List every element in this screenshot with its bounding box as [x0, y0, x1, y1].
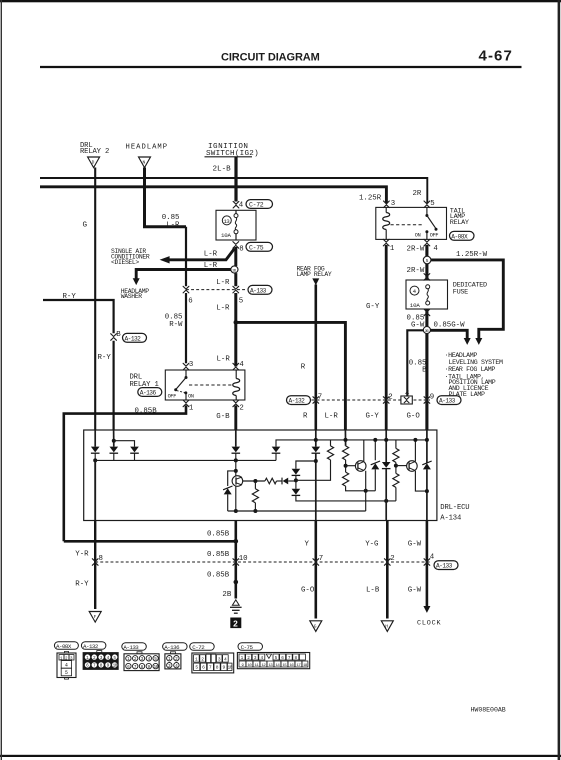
diode 2: [110, 447, 119, 454]
svg-text:A-133: A-133: [250, 287, 267, 294]
pin B chevron A-132: [111, 334, 117, 341]
connector C-75 label: [238, 643, 263, 651]
svg-text:4-67: 4-67: [479, 48, 513, 65]
svg-text:Y-R: Y-R: [75, 551, 89, 559]
diode 5: [292, 469, 301, 476]
svg-text:6: 6: [127, 665, 130, 670]
svg-text:2: 2: [247, 656, 250, 661]
svg-text:G-W: G-W: [408, 587, 422, 595]
svg-text:8: 8: [99, 555, 103, 563]
wire G exit down: [94, 460, 96, 520]
svg-text:L-R: L-R: [216, 279, 230, 287]
arrow rear fog feed: [312, 278, 319, 285]
svg-text:OFF: OFF: [168, 393, 177, 399]
svg-text:4: 4: [405, 390, 410, 398]
resistor R3: [345, 466, 347, 472]
wire G-Y tail pin1 down to ECU: [385, 245, 388, 430]
pin 10 chevron: [233, 559, 239, 566]
svg-text:7: 7: [318, 393, 322, 401]
wire headlamp vertical + corner to x186: [145, 168, 187, 227]
svg-text:4: 4: [433, 245, 438, 253]
svg-text:A-136: A-136: [164, 644, 180, 651]
svg-text:2: 2: [239, 404, 243, 412]
tail relay switch: [426, 207, 428, 215]
svg-text:4: 4: [175, 664, 178, 669]
wire R-Y horizontal from left: [43, 300, 114, 333]
svg-text:G-W: G-W: [408, 541, 422, 549]
wire to single air conditioner: [166, 249, 235, 260]
svg-text:4: 4: [239, 202, 244, 210]
svg-text:8: 8: [294, 656, 297, 661]
connector A-132/A-133 dashed line (pins 7,2,4,9): [312, 399, 431, 401]
Q1 output to resistor network: [243, 480, 265, 482]
svg-text:5: 5: [154, 657, 157, 662]
horizontal resistor: [265, 478, 277, 484]
svg-text:3: 3: [168, 664, 171, 669]
page-link triangle HEADLAMP: [139, 157, 151, 168]
svg-text:1.25R: 1.25R: [359, 194, 382, 202]
pin 8 chevron C-75: [233, 242, 239, 249]
svg-text:L-R: L-R: [216, 304, 230, 312]
page bottom edge bar: [0, 755, 561, 757]
wire x186 pin6 to DRL relay1 pin 3: [185, 293, 187, 363]
pin 3 chevron tail relay: [384, 201, 390, 208]
resistors R4 R5: [395, 440, 397, 449]
svg-text:1: 1: [195, 656, 198, 662]
connector label (A-133): [437, 396, 461, 405]
svg-text:1: 1: [390, 245, 395, 253]
base link to Q3: [396, 465, 407, 467]
svg-text:C-72: C-72: [249, 202, 264, 209]
junction circle 36 right: [423, 326, 430, 333]
pin 6 chevron: [183, 286, 189, 293]
svg-text:9: 9: [147, 665, 150, 670]
svg-text:9: 9: [430, 393, 434, 401]
noise filter box symbol pin 4: [401, 396, 412, 404]
svg-text:RELAY: RELAY: [450, 219, 469, 227]
svg-text:1.25R-W: 1.25R-W: [456, 251, 488, 259]
svg-text:A-134: A-134: [440, 515, 461, 523]
junction circle 36: [231, 266, 238, 273]
svg-text:A-132: A-132: [125, 335, 142, 342]
bus wire 1 (to tail relay pin 5): [40, 178, 427, 204]
svg-text:N: N: [143, 159, 146, 165]
connector A-132 label: [81, 642, 106, 650]
svg-text:7: 7: [319, 555, 323, 563]
svg-text:R-Y: R-Y: [63, 293, 77, 301]
connector label (A-08X): [450, 231, 475, 240]
pin 7 chevron: [313, 559, 319, 566]
svg-text:R-Y: R-Y: [75, 581, 89, 589]
svg-text:2L-B: 2L-B: [213, 166, 232, 174]
dedicated fuse element: [426, 285, 430, 305]
svg-text:<DIESEL>: <DIESEL>: [111, 259, 139, 266]
DRL relay1 switch: [185, 370, 187, 378]
svg-text:3: 3: [391, 200, 395, 208]
top rail y440: [316, 439, 427, 441]
DRL-ECU box: [84, 430, 437, 521]
svg-text:A-136: A-136: [140, 390, 157, 397]
DRL relay1 coil: [233, 379, 240, 396]
connector A-133 label: [122, 643, 147, 651]
left loop with zener: [228, 471, 236, 486]
svg-text:FUSE: FUSE: [453, 288, 468, 296]
svg-text:2: 2: [93, 656, 96, 661]
wire R-Y down to ECU: [112, 341, 114, 430]
wire tail pin4 down to junction 5: [425, 245, 428, 256]
pin 2 chevron: [384, 559, 390, 566]
svg-text:G: G: [314, 623, 317, 629]
svg-text:R-Y: R-Y: [98, 354, 112, 362]
svg-text:0.85B: 0.85B: [207, 572, 230, 580]
connector A-133 body: [137, 652, 142, 654]
svg-text:A-132: A-132: [289, 398, 306, 405]
pin chevron dedicated fuse top: [424, 274, 430, 281]
fuse box 13 10A: [216, 210, 256, 240]
TAIL LAMP RELAY box: [376, 207, 447, 239]
diode 6: [292, 489, 301, 496]
pin 7 chevron: [313, 397, 319, 404]
header rule: [40, 66, 522, 68]
junction circle 5: [423, 256, 431, 264]
svg-text:2: 2: [201, 656, 204, 662]
wire G inside: [94, 430, 96, 447]
svg-text:A-08X: A-08X: [56, 643, 72, 650]
connector A-08X label: [54, 642, 78, 650]
svg-text:0.85B: 0.85B: [207, 530, 230, 538]
pin chevron dedicated fuse bottom: [424, 309, 430, 316]
svg-text:1: 1: [189, 404, 194, 412]
svg-text:2: 2: [134, 657, 137, 662]
svg-text:R: R: [303, 413, 308, 421]
connector C-75 body: [237, 653, 309, 669]
svg-text:6: 6: [86, 664, 89, 669]
vertical resistor below Q1 output: [254, 481, 256, 489]
wire R inside: [315, 430, 317, 447]
svg-text:C-75: C-75: [241, 644, 254, 651]
pin 9 chevron: [424, 397, 430, 404]
svg-text:L-R: L-R: [217, 355, 231, 363]
pin 2 chevron: [383, 397, 389, 404]
wire R vertical to ECU: [314, 285, 317, 431]
svg-text:R: R: [301, 363, 306, 371]
svg-text:5: 5: [113, 656, 116, 661]
connector A-136 label: [163, 643, 188, 651]
svg-text:L-R: L-R: [166, 222, 180, 230]
svg-text:L-R: L-R: [325, 413, 339, 421]
svg-text:1: 1: [241, 656, 244, 661]
svg-text:3: 3: [218, 656, 221, 662]
svg-text:D: D: [92, 159, 95, 165]
wire 0.85B from pin1: [64, 405, 186, 541]
svg-text:A-08X: A-08X: [451, 233, 468, 240]
svg-text:4: 4: [430, 554, 435, 562]
connector label (A-136): [138, 388, 162, 397]
arrow headlamp washer: [133, 278, 140, 285]
svg-text:WASHER: WASHER: [121, 293, 142, 300]
svg-text:7: 7: [93, 664, 96, 669]
svg-text:DRL-ECU: DRL-ECU: [440, 504, 469, 512]
connector A-136 body: [171, 652, 176, 654]
pin 2 chevron DRL relay1: [233, 400, 239, 407]
junction dot: [93, 458, 97, 462]
page left edge line: [1, 0, 2, 760]
transistor Q2: [355, 461, 366, 472]
pin 3 chevron DRL relay1: [183, 363, 189, 370]
Q2 collector up / emitter down: [363, 440, 365, 462]
wire 0.85B horizontal bottom: [64, 540, 236, 543]
connector A-132 body (black): [97, 651, 102, 653]
svg-text:9: 9: [223, 665, 226, 671]
svg-text:10: 10: [239, 555, 248, 563]
connector label (C-72): [246, 200, 273, 209]
svg-text:LEVELING SYSTEM: LEVELING SYSTEM: [449, 359, 503, 366]
svg-text:CLOCK: CLOCK: [417, 620, 442, 628]
svg-text:·REAR FOG LAMP: ·REAR FOG LAMP: [445, 366, 496, 373]
svg-text:6: 6: [188, 298, 192, 306]
svg-text:2: 2: [233, 618, 238, 628]
DRL RELAY 1 box: [165, 370, 245, 400]
svg-text:C-72: C-72: [192, 644, 205, 651]
wire x186 down to pin6: [185, 227, 187, 286]
bus wire 2 (to tail relay pin 3): [40, 187, 386, 204]
junction dot L-R branch: [234, 320, 239, 325]
svg-text:LAMP RELAY: LAMP RELAY: [297, 271, 332, 278]
svg-text:G: G: [83, 222, 88, 230]
svg-text:2B: 2B: [222, 591, 231, 599]
svg-text:10A: 10A: [221, 232, 232, 239]
svg-text:9: 9: [107, 664, 110, 669]
transistor Q3: [407, 461, 418, 472]
svg-text:A-133: A-133: [436, 563, 453, 570]
wire Y exit: [314, 521, 317, 619]
transistor Q1 on G-B wire: [232, 476, 243, 487]
connector label (A-132): [287, 396, 311, 405]
svg-text:7: 7: [134, 665, 137, 670]
svg-text:G-O: G-O: [301, 587, 315, 595]
svg-text:4: 4: [224, 656, 227, 662]
pin 5 chevron tail relay: [424, 201, 430, 208]
svg-text:L-B: L-B: [366, 587, 380, 595]
wire Y-G exit: [386, 521, 389, 619]
zener 1: [374, 440, 376, 460]
wire DRL relay 2 (G) vertical: [94, 168, 96, 431]
connector C-72 body: [192, 653, 234, 673]
pin 8 chevron: [92, 559, 98, 566]
wire 0.85G-W to right arrow: [431, 330, 468, 338]
pin 4 chevron DRL relay1: [233, 363, 239, 370]
svg-text:0.85G-W: 0.85G-W: [434, 322, 466, 330]
connector label (A-133): [248, 285, 272, 294]
pin 1 chevron tail relay: [383, 239, 389, 246]
wire ignition switch vertical: [234, 157, 237, 202]
svg-text:5: 5: [275, 656, 278, 661]
svg-text:G-O: G-O: [407, 413, 421, 421]
svg-text:2R: 2R: [413, 190, 422, 198]
branch to diode chain: [296, 461, 316, 469]
connector label (A-132): [123, 333, 147, 342]
connector A-133 dashed line (pins 6,5): [186, 289, 246, 291]
svg-text:6: 6: [202, 665, 205, 671]
wire pin8 down to junction: [234, 247, 237, 266]
connector label (A-133): [434, 561, 458, 570]
pin 4 chevron: [424, 559, 430, 566]
diode bus: [95, 459, 276, 461]
svg-text:C-75: C-75: [249, 245, 264, 252]
svg-text:2: 2: [175, 657, 178, 662]
wire L-R inside with resistor R2: [344, 430, 346, 446]
svg-text:ON: ON: [188, 393, 194, 399]
wire G-B from pin2 to ECU: [234, 405, 237, 430]
svg-text:G-Y: G-Y: [366, 303, 380, 311]
svg-text:F: F: [94, 614, 97, 620]
svg-text:HW08E00AB: HW08E00AB: [471, 707, 506, 714]
svg-text:·HEADLAMP: ·HEADLAMP: [445, 352, 478, 359]
wire G-O inside with zener 2: [426, 430, 428, 463]
DRL relay1 internal dashed link: [189, 384, 233, 386]
svg-text:5: 5: [239, 298, 243, 306]
svg-text:2R-W: 2R-W: [407, 267, 425, 275]
resistor R1: [330, 440, 332, 446]
svg-text:G-B: G-B: [216, 413, 230, 421]
pin 5 chevron: [233, 286, 239, 293]
wire G-Y inside with diode: [385, 430, 387, 462]
svg-text:2R-W: 2R-W: [407, 245, 425, 253]
svg-text:R-W: R-W: [169, 321, 183, 329]
svg-text:5: 5: [65, 670, 68, 676]
DEDICATED FUSE box: [406, 280, 448, 309]
svg-text:G-Y: G-Y: [366, 413, 380, 421]
svg-text:1: 1: [127, 657, 130, 662]
wire junction down to pin5: [234, 273, 237, 286]
diode 1: [91, 447, 100, 454]
svg-text:1: 1: [86, 656, 89, 661]
svg-text:8: 8: [216, 665, 219, 671]
diode 4: [272, 447, 281, 454]
wire B exit to ground: [235, 521, 238, 599]
diode pointing left: [283, 478, 289, 485]
svg-text:4: 4: [65, 663, 68, 669]
svg-text:Y-G: Y-G: [365, 541, 378, 549]
svg-text:ON: ON: [415, 232, 421, 238]
base link to Q2: [346, 465, 356, 467]
connector A-08X body: [57, 653, 76, 678]
svg-text:B: B: [116, 331, 121, 339]
wire junction36 down to pin 9: [425, 334, 428, 430]
svg-text:4: 4: [239, 361, 244, 369]
svg-text:1: 1: [168, 657, 171, 662]
jog to diode 3: [114, 441, 135, 447]
svg-text:4: 4: [147, 657, 150, 662]
diode on G-B wire: [235, 430, 237, 447]
bottom rail y511: [228, 510, 366, 512]
connector label (C-75): [246, 242, 273, 251]
svg-text:OFF: OFF: [430, 232, 439, 238]
svg-text:4: 4: [107, 656, 110, 661]
bottom dashed connector line: [95, 561, 430, 563]
svg-text:H: H: [385, 623, 388, 629]
svg-text:0.85B: 0.85B: [135, 408, 158, 416]
diode 3: [130, 447, 139, 454]
svg-text:8: 8: [141, 665, 144, 670]
svg-text:A-132: A-132: [83, 643, 99, 650]
svg-text:2: 2: [388, 393, 392, 401]
svg-text:7: 7: [209, 665, 212, 671]
wire G-W exit to CLOCK: [426, 521, 429, 607]
page-link triangle DRL RELAY 2: [88, 157, 100, 168]
diode on R wire: [312, 447, 321, 454]
pin 1 chevron DRL relay1: [183, 400, 189, 407]
svg-text:8: 8: [100, 664, 103, 669]
svg-text:HEADLAMP: HEADLAMP: [126, 144, 169, 152]
page right edge bar: [558, 0, 561, 760]
arrow to single air conditioner: [160, 256, 170, 263]
page-link triangle bottom Y: [310, 621, 322, 632]
svg-text:10A: 10A: [410, 302, 421, 309]
page top edge bar: [0, 0, 561, 2]
ground number box 2: [230, 618, 241, 629]
svg-text:4: 4: [260, 656, 263, 661]
wire pin5 down to DRL relay1 pin 4: [234, 293, 237, 367]
wire dedicated fuse down to junction 36: [425, 309, 428, 326]
svg-text:6: 6: [281, 656, 284, 661]
svg-text:0.85B: 0.85B: [207, 551, 230, 559]
wire 1.25R-W to right and down: [431, 260, 503, 339]
wire Y-R exit: [94, 521, 96, 610]
page-link triangle bottom Y-G: [381, 621, 393, 632]
svg-text:3: 3: [189, 361, 193, 369]
wire 0.85B branch to box symbol: [407, 330, 423, 396]
wire junction5 down to dedicated fuse: [425, 264, 428, 280]
svg-text:L-R: L-R: [204, 250, 218, 258]
svg-text:7: 7: [288, 656, 291, 661]
tail relay coil: [383, 213, 390, 230]
svg-text:CIRCUIT DIAGRAM: CIRCUIT DIAGRAM: [221, 52, 320, 64]
svg-text:2: 2: [390, 555, 394, 563]
svg-text:5: 5: [195, 665, 198, 671]
svg-text:8: 8: [239, 245, 243, 253]
svg-text:3: 3: [141, 657, 144, 662]
page-link triangle bottom left: [89, 612, 101, 623]
svg-text:3: 3: [254, 656, 257, 661]
svg-text:A-133: A-133: [123, 644, 139, 651]
svg-text:G-W: G-W: [411, 321, 425, 329]
connector C-72 label: [190, 643, 215, 651]
svg-text:RELAY 2: RELAY 2: [80, 148, 109, 156]
pin 4 chevron tail relay: [424, 239, 430, 246]
svg-text:Y: Y: [305, 541, 310, 549]
tail relay internal dashed link: [391, 224, 424, 226]
svg-text:5: 5: [430, 200, 434, 208]
wire R-Y inside: [113, 430, 115, 447]
fuse element: [234, 214, 238, 234]
wire L-R branch to x345: [236, 322, 346, 430]
svg-text:3: 3: [100, 656, 103, 661]
wire branch to headlamp washer: [136, 270, 231, 279]
ground symbol: [232, 600, 239, 605]
pin 4 chevron C-72: [233, 201, 239, 208]
svg-text:A-133: A-133: [439, 398, 456, 405]
